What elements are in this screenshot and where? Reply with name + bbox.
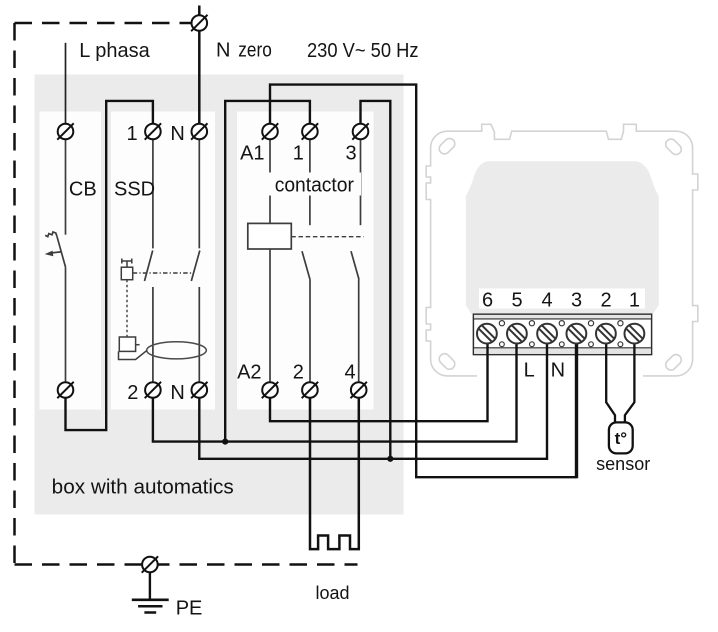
- wire: CB output to SSD input 1: [66, 101, 153, 430]
- svg-text:1: 1: [126, 123, 137, 145]
- wire: SSD N output to thermostat terminal 4: [199, 344, 547, 459]
- svg-text:1: 1: [293, 143, 304, 165]
- svg-text:CB: CB: [69, 179, 97, 201]
- wire: thermostat terminal 3 drop (thick): [575, 344, 578, 479]
- svg-text:1: 1: [629, 290, 640, 312]
- terminal: contactor 4: [351, 382, 367, 398]
- junction dot N: [387, 456, 393, 462]
- SSD vertical dashed linkage: [126, 280, 128, 337]
- terminal: contactor 2: [302, 382, 318, 398]
- screw terminal 2: [596, 324, 616, 344]
- svg-text:L phasa: L phasa: [79, 40, 150, 62]
- ground symbol: [132, 572, 169, 612]
- terminal strip small holes: [499, 321, 623, 347]
- white band over frame bottom edge (L/N label area): [477, 367, 643, 385]
- enclosure dashed border: left: [13, 23, 16, 565]
- svg-text:L: L: [524, 359, 535, 381]
- SSD trip coil (lower box + bracket): [119, 337, 147, 360]
- screw terminal 6: [477, 324, 497, 344]
- thermostat mounting frame: [426, 124, 698, 383]
- svg-text:6: 6: [482, 290, 493, 312]
- contactor pole 1 leads: [302, 139, 310, 382]
- terminal: contactor 3: [352, 123, 368, 139]
- wire: N supply drop to SSD N input: [198, 6, 201, 124]
- enclosure dashed border: bottom: [15, 563, 358, 566]
- sensor t° body: [609, 422, 633, 453]
- svg-text:N: N: [170, 382, 184, 404]
- white band behind contactor label: [266, 173, 361, 196]
- SSD test button (top box with plunger): [121, 259, 132, 280]
- svg-text:contactor: contactor: [275, 175, 355, 197]
- circuit breaker CB switch: [45, 139, 65, 382]
- svg-text:box with automatics: box with automatics: [52, 476, 234, 498]
- SSD pole N lead + blade: [191, 139, 200, 382]
- contactor mechanical linkage (dashed): [291, 236, 363, 238]
- svg-text:A1: A1: [240, 143, 264, 165]
- screw terminal 3: [567, 324, 587, 344]
- svg-text:3: 3: [345, 143, 356, 165]
- wire + load element (contactor outputs 2 and 4 to load): [310, 398, 359, 549]
- svg-text:230 V~ 50 Hz: 230 V~ 50 Hz: [307, 40, 419, 62]
- wire: contactor coil A2 to thermostat terminal 6: [270, 344, 488, 422]
- svg-text:PE: PE: [176, 598, 203, 620]
- svg-text:3: 3: [571, 290, 582, 312]
- svg-text:load: load: [315, 583, 349, 603]
- svg-text:sensor: sensor: [596, 454, 650, 474]
- wire: contactor coil A1 to thermostat terminal 3: [270, 85, 577, 478]
- SSD pole 1 lead + blade: [145, 139, 153, 382]
- PE terminal on dashed border: [142, 556, 158, 572]
- svg-text:N: N: [170, 123, 184, 145]
- terminal: SSD 2: [145, 382, 161, 398]
- wire: thermostat terminal 1 to sensor: [625, 344, 635, 423]
- contactor pole 3 leads: [351, 139, 361, 382]
- CB module box: [40, 112, 102, 410]
- wire: thermostat terminal 2 to sensor: [606, 344, 615, 423]
- screw terminal 4: [537, 324, 557, 344]
- screw terminal 5: [507, 324, 527, 344]
- svg-text:2: 2: [127, 382, 138, 404]
- svg-text:A2: A2: [237, 361, 261, 383]
- svg-text:5: 5: [511, 290, 522, 312]
- SSD module box: [111, 112, 215, 410]
- terminal: CB top: [57, 123, 73, 139]
- thermostat body block: [466, 161, 659, 314]
- box with automatics (gray panel): [35, 75, 404, 515]
- svg-text:t°: t°: [615, 429, 628, 448]
- terminal: contactor A1: [262, 123, 278, 139]
- junction dot L: [222, 439, 228, 445]
- svg-text:2: 2: [293, 361, 304, 383]
- terminal strip: [473, 314, 651, 354]
- terminal: CB bottom: [57, 382, 73, 398]
- wire: riser junction to contactor input 3: [361, 101, 391, 459]
- contactor module box: [237, 112, 374, 410]
- wire: L phase drop to CB: [65, 43, 67, 124]
- wire: riser junction to contactor input 1: [225, 101, 310, 442]
- terminal: N supply entry: [191, 15, 207, 31]
- enclosure dashed border: top: [15, 22, 192, 25]
- terminal: contactor 1: [302, 123, 318, 139]
- white band behind terminal numbers: [479, 289, 645, 309]
- contactor coil lead A1-A2: [269, 139, 271, 382]
- SSD linkage dash-dot to blades: [133, 272, 192, 274]
- SSD differential toroid (ellipse): [147, 342, 207, 359]
- svg-text:N: N: [551, 359, 565, 381]
- svg-text:4: 4: [541, 290, 552, 312]
- terminal: SSD N top: [191, 123, 207, 139]
- wire: SSD output 2 to contactor input 1 and thermostat terminal 5: [153, 344, 517, 442]
- svg-text:2: 2: [600, 290, 611, 312]
- svg-text:zero: zero: [238, 40, 271, 62]
- terminal: SSD N bottom: [191, 382, 207, 398]
- terminal: contactor A2: [262, 382, 278, 398]
- circuit breaker CB arrow head: [45, 251, 54, 257]
- terminal: SSD 1: [145, 123, 161, 139]
- svg-text:SSD: SSD: [114, 179, 155, 201]
- screw terminal 1: [625, 324, 645, 344]
- svg-text:4: 4: [344, 361, 355, 383]
- svg-text:N: N: [216, 40, 230, 62]
- contactor coil K1 box: [248, 223, 291, 249]
